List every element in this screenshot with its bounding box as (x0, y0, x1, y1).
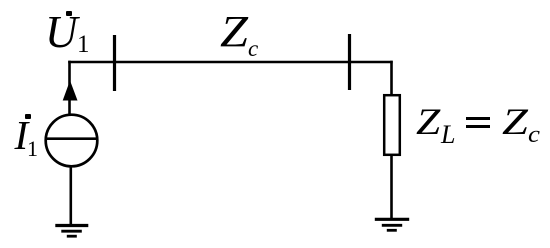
label: load impedance ZL (416, 104, 440, 142)
label: subscript 1 of U1 (77, 32, 90, 57)
label: line impedance Zc (220, 9, 248, 54)
ground (left) (55, 226, 88, 237)
wire: right vertical from rail corner down to load ZL (390, 61, 393, 96)
ground (right) (375, 219, 409, 230)
current source I1 arrowhead (63, 81, 78, 101)
wire: top rail from node U1 to right corner (68, 61, 393, 64)
label: equals sign (drawn) (466, 117, 490, 120)
resistor ZL body (rectangle) (384, 95, 400, 155)
current source I1 chord line (46, 137, 98, 140)
label: subscript c of Zc (248, 37, 258, 60)
current source I1 circle (46, 115, 98, 167)
label: subscript c of right Zc (528, 123, 540, 147)
label: source current I1 (dot over I) (15, 115, 29, 156)
label: subscript 1 of I1 (27, 138, 38, 160)
wire: left vertical drop from node U1 to current source (68, 61, 71, 114)
label: subscript L of ZL (441, 122, 455, 148)
label: Zc on right side of equation (502, 104, 528, 142)
wire: load ZL bottom to right ground (390, 155, 393, 219)
label: dot of U1 (66, 11, 72, 16)
bus tick right (receiving end) (348, 34, 351, 90)
label: dot of I1 (25, 114, 31, 119)
bus tick left (sending end) (113, 35, 116, 91)
wire: current source bottom to left ground (70, 166, 73, 225)
label: node voltage U1 (dot over U) (45, 10, 78, 55)
